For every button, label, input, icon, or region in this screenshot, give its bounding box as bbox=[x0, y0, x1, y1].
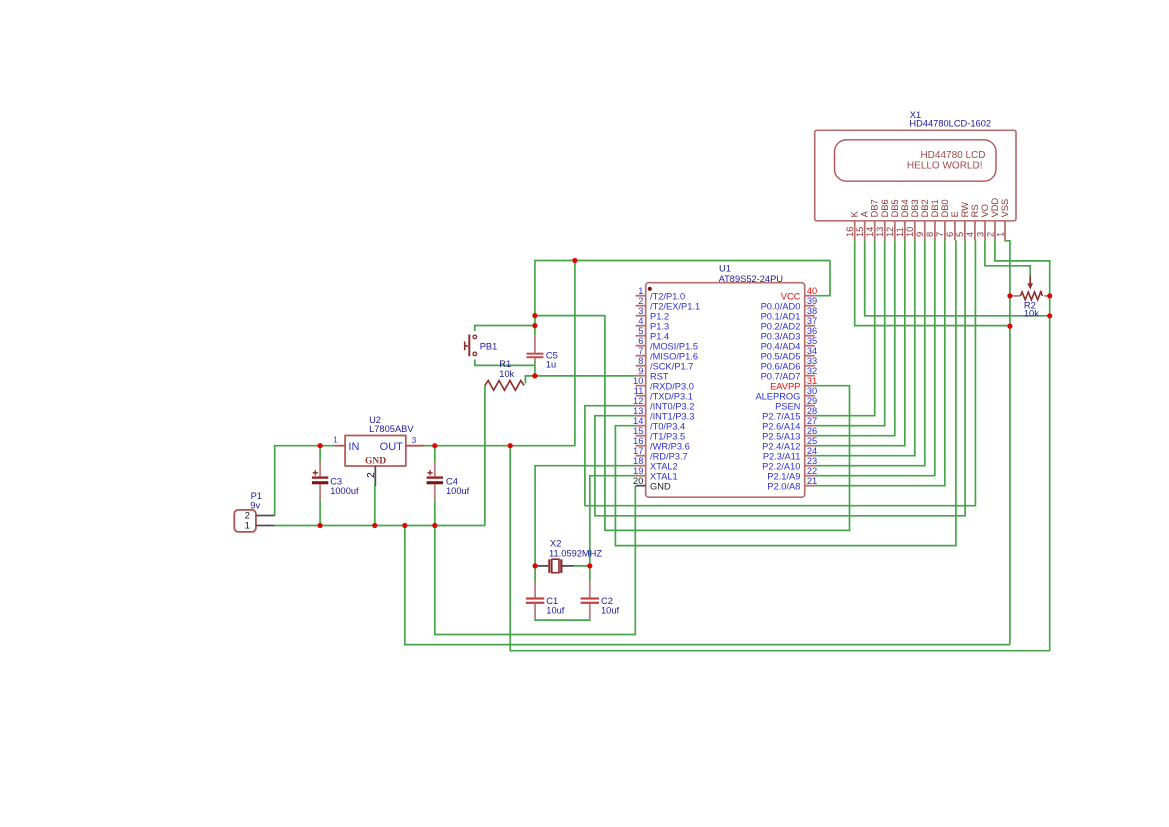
svg-text:1: 1 bbox=[245, 521, 250, 532]
U1 pin 1 stub bbox=[636, 295, 646, 297]
wire ground rail bbox=[275, 525, 485, 527]
svg-text:HD44780LCD-1602: HD44780LCD-1602 bbox=[909, 119, 991, 129]
U1 pin 22 stub bbox=[805, 475, 815, 477]
U1 pin 33 stub bbox=[805, 365, 815, 367]
capacitor C2 symbol bbox=[581, 581, 599, 618]
svg-text:11.0592MHZ: 11.0592MHZ bbox=[549, 548, 602, 558]
svg-text:EAVPP: EAVPP bbox=[770, 381, 800, 391]
wire 5V long run to LCD VDD bbox=[510, 446, 1049, 651]
svg-text:DB6: DB6 bbox=[880, 199, 890, 217]
svg-text:6: 6 bbox=[945, 232, 955, 237]
svg-text:1: 1 bbox=[995, 232, 1005, 237]
wire U1 P2.3 to LCD DB3 bbox=[815, 240, 915, 455]
svg-text:/TXD/P3.1: /TXD/P3.1 bbox=[650, 391, 693, 401]
svg-text:10: 10 bbox=[905, 227, 915, 237]
svg-text:P2.5/A13: P2.5/A13 bbox=[762, 431, 800, 441]
svg-text:P0.6/AD6: P0.6/AD6 bbox=[761, 361, 801, 371]
svg-text:P1.4: P1.4 bbox=[650, 331, 669, 341]
svg-text:/MISO/P1.6: /MISO/P1.6 bbox=[650, 351, 698, 361]
U1 pin 15 stub bbox=[636, 435, 646, 437]
svg-text:P0.7/AD7: P0.7/AD7 bbox=[761, 371, 801, 381]
junction C4 5V wire bbox=[432, 443, 437, 448]
U1 pin 35 stub bbox=[805, 345, 815, 347]
X1 pin 14 (DB7) stub bbox=[874, 221, 876, 240]
svg-text:28: 28 bbox=[807, 406, 817, 416]
svg-text:DB1: DB1 bbox=[930, 199, 940, 217]
wire R2 right lead bbox=[1044, 295, 1050, 297]
svg-text:/SCK/P1.7: /SCK/P1.7 bbox=[650, 361, 693, 371]
svg-text:16: 16 bbox=[633, 436, 643, 446]
svg-text:2: 2 bbox=[365, 472, 377, 478]
svg-text:/T0/P3.4: /T0/P3.4 bbox=[650, 421, 685, 431]
U1 pin 6 stub bbox=[636, 345, 646, 347]
svg-text:10uf: 10uf bbox=[546, 605, 565, 615]
svg-text:21: 21 bbox=[807, 476, 817, 486]
svg-text:11: 11 bbox=[634, 386, 644, 396]
LCD module X1 body bbox=[815, 130, 1016, 221]
junction crystal right C2 XTAL1 bbox=[587, 563, 592, 568]
U1 pin 12 stub bbox=[636, 405, 646, 407]
junction K wire VSS net bbox=[1007, 324, 1012, 329]
wire U1 pin 14 to LCD E bbox=[615, 240, 956, 545]
svg-text:P2.3/A11: P2.3/A11 bbox=[763, 451, 801, 461]
wire U1 P2.5 to LCD DB5 bbox=[815, 240, 895, 435]
U1 pin 19 stub bbox=[636, 475, 646, 477]
svg-text:3: 3 bbox=[975, 232, 985, 237]
svg-text:15: 15 bbox=[633, 426, 643, 436]
junction U2 GND ground rail bbox=[372, 523, 377, 528]
svg-text:16: 16 bbox=[845, 227, 855, 237]
svg-text:A: A bbox=[860, 210, 870, 217]
svg-text:RS: RS bbox=[970, 204, 980, 217]
svg-text:13: 13 bbox=[633, 406, 643, 416]
wire U2 OUT 5V rail bbox=[424, 445, 575, 447]
svg-text:14: 14 bbox=[633, 416, 643, 426]
X1 pin 3 (VO) stub bbox=[984, 221, 986, 240]
svg-text:4: 4 bbox=[638, 316, 643, 326]
svg-text:6: 6 bbox=[638, 336, 643, 346]
svg-text:15: 15 bbox=[855, 227, 865, 237]
junction A wire VDD net bbox=[1047, 313, 1052, 318]
wire VCC top rail to C5/PB1 bbox=[535, 261, 830, 336]
svg-text:/RXD/P3.0: /RXD/P3.0 bbox=[650, 381, 694, 391]
svg-text:P0.1/AD1: P0.1/AD1 bbox=[761, 311, 801, 321]
svg-text:35: 35 bbox=[807, 336, 817, 346]
wire LCD A to 5V net bbox=[865, 240, 1050, 315]
svg-text:33: 33 bbox=[807, 356, 817, 366]
R2 wiper arrow bbox=[1029, 276, 1031, 284]
wire LCD VO to R2 wiper bbox=[985, 240, 1030, 275]
junction crystal left C1 XTAL2 bbox=[533, 563, 538, 568]
wire EA/VPP net to U1 pin 31 bbox=[535, 316, 850, 531]
capacitor C5 symbol bbox=[527, 335, 544, 361]
wire U1 P2.0 to LCD DB0 bbox=[815, 240, 945, 485]
svg-text:9: 9 bbox=[638, 366, 643, 376]
wire C3 bottom to ground rail bbox=[319, 500, 321, 526]
U2 pin 3 stub bbox=[406, 445, 425, 447]
X1 pin 15 (A) stub bbox=[864, 221, 866, 240]
svg-text:8: 8 bbox=[638, 356, 643, 366]
svg-text:9v: 9v bbox=[250, 500, 260, 510]
svg-text:PSEN: PSEN bbox=[775, 401, 800, 411]
U1 pin 4 stub bbox=[636, 325, 646, 327]
U1 pin 28 stub bbox=[805, 415, 815, 417]
X1 pin 12 (DB5) stub bbox=[894, 221, 896, 240]
svg-text:/INT0/P3.2: /INT0/P3.2 bbox=[650, 401, 694, 411]
svg-text:4: 4 bbox=[965, 232, 975, 237]
svg-text:2: 2 bbox=[985, 232, 995, 237]
svg-text:R1: R1 bbox=[499, 359, 511, 369]
wire U1 pin 13 to LCD RW bbox=[595, 240, 965, 516]
svg-text:36: 36 bbox=[807, 326, 817, 336]
svg-text:11: 11 bbox=[895, 227, 905, 237]
svg-text:32: 32 bbox=[807, 366, 817, 376]
svg-text:5: 5 bbox=[638, 326, 643, 336]
svg-text:RW: RW bbox=[960, 202, 970, 218]
wire 5V vertical riser bbox=[574, 261, 576, 446]
X1 pin 4 (RS) stub bbox=[974, 221, 976, 240]
svg-text:/WR/P3.6: /WR/P3.6 bbox=[650, 441, 690, 451]
svg-text:10uf: 10uf bbox=[601, 605, 620, 615]
U1 pin 39 stub bbox=[805, 305, 815, 307]
svg-text:26: 26 bbox=[807, 426, 817, 436]
svg-text:/T2/P1.0: /T2/P1.0 bbox=[650, 291, 685, 301]
microcontroller U1 AT89S52-24PU body bbox=[646, 283, 805, 498]
svg-text:P0.5/AD5: P0.5/AD5 bbox=[761, 351, 801, 361]
crystal X2 symbol bbox=[537, 559, 574, 573]
svg-text:DB5: DB5 bbox=[890, 199, 900, 217]
U1 pin 40 stub bbox=[805, 295, 815, 297]
wire U2 GND pin to ground rail bbox=[374, 486, 376, 526]
svg-text:P2.6/A14: P2.6/A14 bbox=[762, 421, 800, 431]
svg-text:9: 9 bbox=[915, 232, 925, 237]
wire ground long run to LCD VSS bbox=[405, 526, 1010, 645]
svg-text:P2.1/A9: P2.1/A9 bbox=[767, 471, 800, 481]
svg-text:U1: U1 bbox=[719, 263, 731, 273]
capacitor C3 electrolytic symbol bbox=[312, 462, 328, 501]
svg-text:30: 30 bbox=[807, 386, 817, 396]
svg-text:HELLO WORLD!: HELLO WORLD! bbox=[907, 160, 983, 171]
U1 pin 34 stub bbox=[805, 355, 815, 357]
wire U1 GND pin 20 to ground rail bbox=[435, 486, 636, 635]
X1 pin 11 (DB4) stub bbox=[904, 221, 906, 240]
svg-text:5: 5 bbox=[955, 232, 965, 237]
U2 pin 2 GND stub bbox=[374, 466, 376, 486]
U1 pin 37 stub bbox=[805, 325, 815, 327]
svg-text:K: K bbox=[850, 210, 860, 217]
svg-text:/T1/P3.5: /T1/P3.5 bbox=[650, 431, 685, 441]
U1 pin 32 stub bbox=[805, 375, 815, 377]
U1 pin 29 stub bbox=[805, 405, 815, 407]
svg-text:P0.4/AD4: P0.4/AD4 bbox=[761, 341, 801, 351]
svg-text:P1.3: P1.3 bbox=[650, 321, 669, 331]
svg-text:29: 29 bbox=[807, 396, 817, 406]
wire crystal left to C1 bbox=[534, 566, 536, 581]
X1 pin 16 (K) stub bbox=[854, 221, 856, 240]
wire C5 bottom to RST node bbox=[534, 361, 536, 376]
svg-text:P1.2: P1.2 bbox=[650, 311, 669, 321]
wire LCD K to ground net bbox=[855, 240, 1010, 325]
capacitor C4 electrolytic symbol bbox=[427, 462, 443, 501]
X1 pin 2 (VDD) stub bbox=[994, 221, 996, 240]
svg-text:39: 39 bbox=[807, 296, 817, 306]
svg-text:22: 22 bbox=[807, 466, 817, 476]
svg-text:ALEPROG: ALEPROG bbox=[755, 391, 800, 401]
U1 pin 10 stub bbox=[636, 385, 646, 387]
pushbutton PB1 symbol bbox=[465, 335, 477, 357]
svg-text:DB0: DB0 bbox=[940, 199, 950, 217]
svg-text:XTAL1: XTAL1 bbox=[650, 471, 678, 481]
svg-text:8: 8 bbox=[925, 232, 935, 237]
svg-text:RST: RST bbox=[650, 371, 669, 381]
svg-text:/RD/P3.7: /RD/P3.7 bbox=[650, 451, 688, 461]
U1 pin 30 stub bbox=[805, 395, 815, 397]
wire U1 P2.6 to LCD DB6 bbox=[815, 240, 885, 425]
X1 pin 10 (DB3) stub bbox=[914, 221, 916, 240]
svg-text:1u: 1u bbox=[546, 360, 556, 370]
svg-text:27: 27 bbox=[807, 416, 817, 426]
U1 pin 25 stub bbox=[805, 445, 815, 447]
wire R1 bottom to ground rail bbox=[484, 385, 486, 525]
connector P1 body bbox=[234, 510, 256, 532]
svg-text:1000uf: 1000uf bbox=[330, 486, 359, 496]
svg-text:L7805ABV: L7805ABV bbox=[369, 424, 414, 434]
junction VCC EA branch bbox=[532, 313, 537, 318]
svg-text:DB3: DB3 bbox=[910, 199, 920, 217]
U1 pin 26 stub bbox=[805, 435, 815, 437]
svg-text:/MOSI/P1.5: /MOSI/P1.5 bbox=[650, 341, 698, 351]
svg-text:37: 37 bbox=[807, 316, 817, 326]
svg-text:P2.0/A8: P2.0/A8 bbox=[767, 481, 800, 491]
resistor R1 zigzag bbox=[485, 381, 524, 391]
svg-text:23: 23 bbox=[807, 456, 817, 466]
svg-text:E: E bbox=[950, 211, 960, 217]
svg-text:25: 25 bbox=[807, 436, 817, 446]
svg-text:14: 14 bbox=[865, 227, 875, 237]
junction C4 ground rail bbox=[432, 523, 437, 528]
svg-text:OUT: OUT bbox=[380, 441, 404, 453]
svg-text:DB2: DB2 bbox=[920, 199, 930, 217]
svg-text:VSS: VSS bbox=[1000, 199, 1010, 218]
svg-text:AT89S52-24PU: AT89S52-24PU bbox=[719, 274, 783, 284]
U1 pin 14 stub bbox=[636, 425, 646, 427]
svg-text:GND: GND bbox=[650, 481, 671, 491]
X1 pin 1 (VSS) stub bbox=[1004, 221, 1006, 240]
svg-text:40: 40 bbox=[807, 286, 817, 296]
svg-text:P2.4/A12: P2.4/A12 bbox=[762, 441, 800, 451]
svg-text:P2.2/A10: P2.2/A10 bbox=[762, 461, 800, 471]
U1 pin 8 stub bbox=[636, 365, 646, 367]
U1 pin 2 stub bbox=[636, 305, 646, 307]
svg-text:7: 7 bbox=[935, 232, 945, 237]
U1 pin 23 stub bbox=[805, 465, 815, 467]
wire LCD VDD down the right side bbox=[995, 240, 1050, 650]
svg-text:X2: X2 bbox=[550, 539, 561, 549]
junction RST node bbox=[532, 373, 537, 378]
svg-text:38: 38 bbox=[807, 306, 817, 316]
svg-text:31: 31 bbox=[807, 376, 817, 386]
svg-text:3: 3 bbox=[412, 436, 417, 445]
U1 pin 7 stub bbox=[636, 355, 646, 357]
junction C3 ground rail bbox=[318, 523, 323, 528]
svg-text:1: 1 bbox=[333, 435, 338, 444]
wire LCD VSS down the right side bbox=[1005, 240, 1010, 644]
R2 wiper mark bbox=[1040, 291, 1043, 294]
junction R2 right VDD net bbox=[1047, 293, 1052, 298]
svg-text:18: 18 bbox=[633, 456, 643, 466]
wire U1 XTAL1 to crystal right bbox=[590, 476, 636, 566]
junction VCC PB1 top bbox=[532, 323, 537, 328]
svg-text:VDD: VDD bbox=[990, 197, 1000, 217]
junction VCC rail riser bbox=[572, 258, 577, 263]
svg-text:17: 17 bbox=[633, 446, 643, 456]
wire C3 top to IN net bbox=[319, 446, 321, 462]
wire PB1 bottom to RST node bbox=[475, 360, 535, 366]
junction 5V long run bbox=[508, 443, 513, 448]
svg-text:24: 24 bbox=[807, 446, 817, 456]
U1 pin 38 stub bbox=[805, 315, 815, 317]
svg-text:2: 2 bbox=[638, 296, 643, 306]
U1 pin 9 stub bbox=[636, 375, 646, 377]
U1 origin dot bbox=[648, 287, 652, 291]
wire U1 P2.1 to LCD DB1 bbox=[815, 240, 935, 475]
svg-text:10: 10 bbox=[633, 376, 643, 386]
svg-text:20: 20 bbox=[633, 476, 643, 486]
svg-text:12: 12 bbox=[885, 227, 895, 237]
svg-text:VO: VO bbox=[980, 204, 990, 217]
svg-text:10k: 10k bbox=[499, 369, 514, 379]
U1 pin 36 stub bbox=[805, 335, 815, 337]
wire C4 top to 5V net bbox=[434, 446, 436, 462]
wire U1 XTAL2 to crystal left bbox=[535, 466, 636, 566]
junction R2 left VSS net bbox=[1007, 293, 1012, 298]
svg-text:GND: GND bbox=[365, 457, 386, 467]
svg-text:7: 7 bbox=[638, 346, 643, 356]
svg-text:VCC: VCC bbox=[781, 291, 801, 301]
svg-text:DB7: DB7 bbox=[870, 199, 880, 217]
svg-text:3: 3 bbox=[638, 306, 643, 316]
X1 pin 7 (DB0) stub bbox=[944, 221, 946, 240]
junction ground rail long run bbox=[402, 523, 407, 528]
svg-text:/INT1/P3.3: /INT1/P3.3 bbox=[650, 411, 694, 421]
X1 pin 9 (DB2) stub bbox=[924, 221, 926, 240]
svg-text:13: 13 bbox=[875, 227, 885, 237]
voltage regulator U2 L7805ABV body bbox=[345, 436, 406, 467]
X1 pin 13 (DB6) stub bbox=[884, 221, 886, 240]
wire VCC to U1 pin 40 bbox=[815, 261, 830, 296]
wire crystal right lead join bbox=[574, 565, 590, 567]
svg-text:P0.3/AD3: P0.3/AD3 bbox=[761, 331, 801, 341]
X1 pin 5 (RW) stub bbox=[964, 221, 966, 240]
U1 pin 17 stub bbox=[636, 455, 646, 457]
wire C1 bottom to C2 bottom bbox=[535, 618, 590, 620]
U1 pin 11 stub bbox=[636, 395, 646, 397]
svg-text:10k: 10k bbox=[1024, 309, 1039, 319]
svg-text:DB4: DB4 bbox=[900, 199, 910, 217]
wire R2 left lead bbox=[1010, 295, 1021, 297]
wire R1 top lead elbow bbox=[525, 376, 535, 383]
wire U1 P2.2 to LCD DB2 bbox=[815, 240, 925, 465]
svg-text:100uf: 100uf bbox=[446, 486, 470, 496]
capacitor C1 symbol bbox=[526, 581, 544, 618]
wire U1 P2.7 to LCD DB7 bbox=[815, 240, 875, 415]
svg-text:XTAL2: XTAL2 bbox=[650, 461, 678, 471]
P1 pin 1 stub bbox=[256, 525, 275, 527]
wire crystal right to C2 bbox=[589, 566, 591, 581]
wire PB1 top to VCC node bbox=[475, 326, 535, 332]
U2 pin 1 stub bbox=[334, 445, 345, 447]
U1 pin 16 stub bbox=[636, 445, 646, 447]
U1 pin 18 stub bbox=[636, 465, 646, 467]
svg-text:IN: IN bbox=[348, 441, 359, 453]
LCD screen outline bbox=[835, 140, 997, 181]
svg-text:/T2/EX/P1.1: /T2/EX/P1.1 bbox=[650, 301, 700, 311]
U1 pin 27 stub bbox=[805, 425, 815, 427]
svg-text:P2.7/A15: P2.7/A15 bbox=[762, 411, 800, 421]
svg-text:P0.0/AD0: P0.0/AD0 bbox=[761, 301, 801, 311]
P1 pin 2 stub bbox=[256, 515, 275, 517]
X1 pin 6 (E) stub bbox=[954, 221, 956, 240]
U1 pin 21 stub bbox=[805, 485, 815, 487]
wire U1 pin 12 to LCD RS bbox=[585, 240, 976, 505]
U1 pin 20 stub bbox=[636, 485, 646, 487]
U1 pin 31 stub bbox=[805, 385, 815, 387]
wire P1 pin2 to U2 IN bbox=[275, 446, 335, 516]
U1 pin 5 stub bbox=[636, 335, 646, 337]
svg-text:12: 12 bbox=[633, 396, 643, 406]
X1 pin 8 (DB1) stub bbox=[934, 221, 936, 240]
U1 pin 24 stub bbox=[805, 455, 815, 457]
svg-text:19: 19 bbox=[633, 466, 643, 476]
svg-text:1: 1 bbox=[638, 286, 643, 296]
junction C3 IN wire bbox=[318, 443, 323, 448]
svg-text:34: 34 bbox=[807, 346, 817, 356]
svg-text:P0.2/AD2: P0.2/AD2 bbox=[761, 321, 801, 331]
U1 pin 13 stub bbox=[636, 415, 646, 417]
wire RST to U1 pin 9 bbox=[535, 375, 636, 377]
svg-text:PB1: PB1 bbox=[480, 342, 498, 352]
wire C4 bottom to ground rail bbox=[434, 500, 436, 526]
U1 pin 3 stub bbox=[636, 315, 646, 317]
wire U1 P2.4 to LCD DB4 bbox=[815, 240, 905, 445]
trimmer R2 zigzag bbox=[1020, 292, 1042, 300]
